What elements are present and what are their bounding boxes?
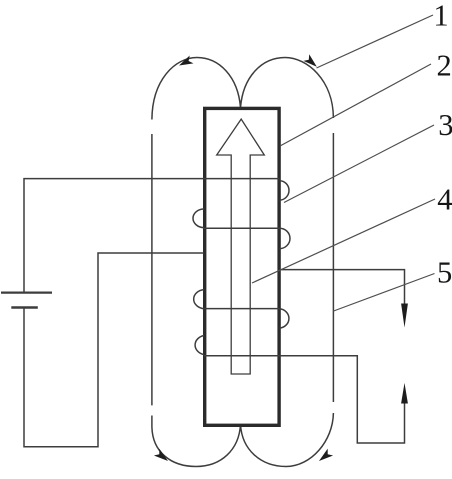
field line right loop: arrowhead top (pointing down-right): [303, 54, 316, 67]
wire from battery negative down, right and up to coil left exit: [24, 253, 204, 447]
battery B1: positive plate: [1, 292, 52, 294]
svg-text:4: 4: [437, 182, 452, 216]
coil turn bump left 3: [195, 336, 204, 355]
field line right loop: arrowhead bottom (pointing down-left): [319, 449, 333, 461]
coil turn bump right 1: [280, 181, 290, 200]
wire from battery positive up and right to coil top: [24, 179, 280, 293]
iron core (rectangle): [205, 108, 279, 425]
svg-text:2: 2: [436, 48, 451, 82]
svg-text:3: 3: [438, 108, 452, 142]
field line left loop: arrowhead bottom (pointing down-right): [154, 449, 168, 461]
field line left loop: bottom arc: [152, 416, 241, 467]
wire from coil right exit to right terminal: [280, 270, 405, 305]
field line left loop: arrowhead top (pointing down-left): [179, 56, 194, 66]
wire from coil bottom front line to lower right terminal: [204, 356, 405, 443]
current arrow up on lower right terminal: [401, 383, 408, 404]
leader line to label 3: [284, 125, 434, 203]
field line right loop: top arc: [241, 58, 334, 119]
current arrow down on right terminal: [401, 304, 408, 328]
coil front line 2: [203, 227, 280, 229]
svg-text:1: 1: [433, 0, 448, 33]
coil turn bump right 2: [280, 228, 291, 248]
coil turn bump left 2: [194, 290, 204, 309]
coil turn bump right 3: [280, 309, 289, 328]
field line left loop: vertical dashed segment: [151, 134, 153, 405]
coil front line 3: [203, 308, 280, 310]
magnetization arrow inside core: [217, 119, 265, 374]
coil turn bump left 1: [193, 209, 204, 228]
leader line to label 4: [252, 199, 435, 283]
leader line to label 1: [317, 15, 434, 68]
battery B1: negative plate: [11, 306, 38, 309]
field line right loop: vertical dashed segments: [332, 133, 334, 402]
field line left loop: top arc: [152, 58, 241, 120]
leader line to label 2: [280, 64, 431, 146]
leader line to label 5: [334, 274, 435, 312]
field line right loop: bottom arc: [241, 413, 334, 467]
svg-text:5: 5: [437, 256, 452, 290]
